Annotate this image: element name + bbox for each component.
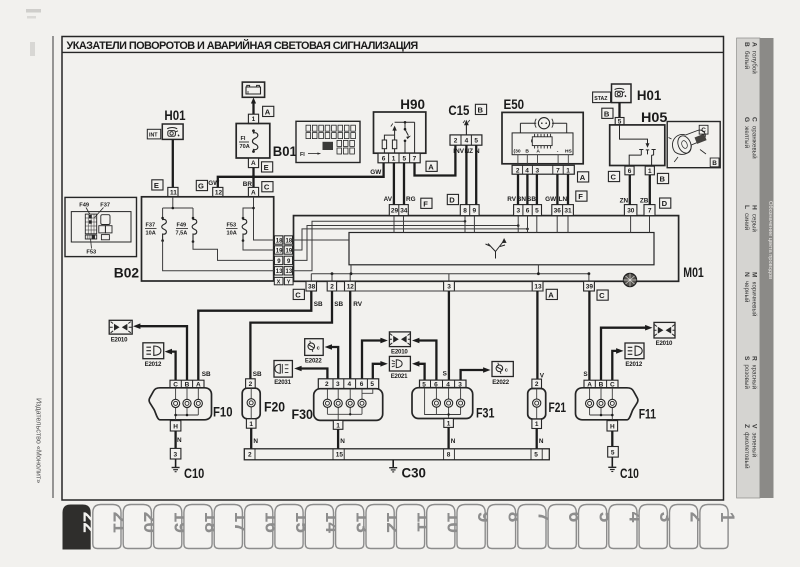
M01 bottom pin 39	[584, 281, 595, 291]
svg-text:C: C	[264, 183, 270, 192]
E2021 icon box	[389, 356, 410, 380]
svg-text:C: C	[599, 291, 605, 300]
svg-text:B02: B02	[114, 265, 140, 281]
node E box	[262, 162, 273, 172]
node F box (left of 29)	[421, 198, 432, 208]
M01 top pin 7	[644, 205, 655, 216]
F21 pin 2 box	[532, 379, 542, 388]
svg-text:A: A	[251, 160, 256, 167]
svg-text:5: 5	[370, 381, 374, 388]
svg-text:c: c	[317, 345, 320, 351]
svg-text:C15: C15	[448, 102, 469, 118]
C15 wire labels INV NZ N	[453, 148, 480, 155]
wire C15 pin4 to M01 8	[465, 145, 467, 204]
wire H90 pin7 to C15 pin2	[415, 145, 456, 175]
E50 inner box	[512, 133, 573, 155]
svg-text:H01: H01	[637, 87, 662, 103]
svg-text:4: 4	[348, 381, 352, 388]
svg-text:D: D	[449, 196, 455, 205]
svg-text:c: c	[505, 367, 508, 373]
svg-text:1: 1	[252, 116, 256, 123]
node B box	[475, 104, 486, 114]
svg-text:E2010: E2010	[656, 340, 673, 347]
thin drops from top pins into inner box	[394, 216, 650, 233]
H90 box	[374, 112, 426, 153]
wire N F21 to C30	[537, 429, 544, 449]
wire F30 pin3 to E2022 arrow	[325, 344, 339, 379]
svg-text:3: 3	[174, 451, 178, 458]
node C box	[262, 182, 273, 192]
wire S pin3 to F31 pin 4	[443, 291, 449, 380]
H05 internals	[620, 125, 656, 166]
cluster B tag	[710, 158, 719, 167]
svg-text:S: S	[583, 371, 588, 378]
E2022 icon box (right)	[492, 362, 513, 387]
svg-text:B: B	[660, 175, 666, 184]
M01 bottom pin 2	[327, 281, 336, 291]
component B02 box	[142, 197, 274, 281]
svg-text:RV: RV	[507, 196, 516, 203]
svg-text:38: 38	[308, 284, 316, 291]
F21 body	[528, 389, 546, 420]
svg-text:H90: H90	[400, 96, 425, 112]
svg-text:INV: INV	[453, 148, 464, 155]
M01 inner relay box	[349, 233, 654, 265]
svg-text:BN: BN	[517, 196, 527, 203]
svg-text:(30: (30	[514, 149, 521, 155]
node C box (right of 39)	[597, 290, 608, 300]
node A box	[426, 161, 437, 171]
svg-text:SB: SB	[253, 371, 262, 378]
svg-text:F30: F30	[292, 406, 314, 422]
E50 IC chip	[531, 134, 552, 149]
wire F37 bottom to row 13	[163, 241, 275, 271]
wire H05 pin1 ZB to M01 7	[640, 175, 650, 205]
F31 pin row 5 6 4 3	[420, 380, 467, 388]
H01 (right) icon box	[612, 84, 632, 103]
svg-text:A голубой: A голубой	[751, 42, 758, 74]
svg-text:SB: SB	[202, 371, 211, 378]
svg-text:2: 2	[516, 167, 520, 174]
M01 bottom pin 38	[306, 281, 317, 291]
svg-text:19: 19	[286, 248, 293, 254]
C10 pin 3 box	[170, 448, 181, 459]
svg-text:2: 2	[330, 284, 334, 291]
svg-text:Y: Y	[287, 280, 291, 286]
svg-text:ZN: ZN	[620, 198, 629, 205]
svg-text:C: C	[295, 290, 301, 299]
wire H90 pin5 RG to M01 34	[404, 163, 416, 205]
svg-text:E2012: E2012	[145, 361, 162, 368]
wire H05 pin6 ZN to M01 30	[620, 175, 630, 205]
svg-text:RG: RG	[406, 196, 416, 203]
svg-text:A: A	[428, 162, 434, 171]
F21 pin 1 box	[532, 419, 542, 428]
F31 body	[412, 388, 473, 419]
wire F49 bottom to row 9	[193, 242, 275, 261]
svg-text:34: 34	[400, 208, 408, 215]
svg-text:N: N	[539, 438, 544, 445]
svg-text:F: F	[578, 192, 583, 201]
pin 11 box	[168, 187, 178, 196]
svg-text:M01: M01	[683, 264, 704, 280]
svg-text:8: 8	[447, 452, 451, 459]
wire E50 pin4 BN to M01 6	[517, 174, 528, 204]
svg-text:3: 3	[447, 284, 451, 291]
svg-text:N: N	[253, 438, 258, 445]
svg-text:1: 1	[447, 420, 451, 427]
svg-text:S: S	[443, 370, 448, 377]
wire F10 pinC to E2012 with arrow	[165, 349, 176, 380]
F20 pin 1 box	[246, 419, 256, 428]
wire F31 pin3 to E2022 arrow	[461, 367, 491, 380]
wire F11 pinB to E2010 arrow	[601, 325, 653, 380]
svg-text:AV: AV	[384, 196, 393, 203]
svg-text:H05: H05	[641, 109, 668, 125]
svg-text:F20: F20	[264, 399, 285, 415]
svg-text:F53: F53	[86, 250, 96, 256]
F30 lamps	[327, 389, 372, 421]
svg-text:E2012: E2012	[625, 361, 642, 368]
wire N F20 to C30	[251, 428, 258, 449]
svg-text:A: A	[536, 149, 540, 155]
wire B01 down BR to B02 pin A	[243, 168, 255, 188]
svg-text:30: 30	[627, 208, 635, 215]
flasher unit icon	[623, 273, 636, 286]
svg-text:2: 2	[325, 381, 329, 388]
wire F30 pin2 to E2031 arrow	[294, 366, 327, 379]
node G box	[196, 180, 207, 190]
svg-text:9: 9	[473, 208, 477, 215]
H90 pin row 6 1 5 7	[378, 153, 420, 163]
svg-text:B: B	[712, 160, 717, 167]
node A box	[263, 106, 274, 116]
svg-text:1: 1	[716, 512, 737, 523]
svg-text:F49: F49	[177, 223, 187, 229]
svg-text:E2010: E2010	[111, 336, 128, 343]
wire/arrow B01 to battery	[251, 98, 256, 116]
H05 pin 5 box	[615, 118, 624, 126]
svg-text:11: 11	[170, 189, 177, 196]
svg-text:1: 1	[392, 156, 396, 163]
STAZ box	[593, 92, 611, 103]
svg-text:4: 4	[525, 167, 529, 174]
ground C10 right	[608, 457, 616, 471]
svg-text:F31: F31	[476, 405, 495, 421]
node C box	[608, 171, 619, 181]
svg-text:B: B	[478, 105, 484, 114]
wire F31 pin5 to E2021 arrow left	[412, 361, 425, 380]
pin 12 box	[213, 187, 223, 196]
svg-text:B01: B01	[273, 143, 297, 159]
connector columns X/Y pin boxes 18 19 9 13	[275, 236, 293, 275]
H05 pin 6 box	[625, 166, 634, 175]
svg-text:V: V	[540, 372, 545, 379]
F10 pin row C B A	[170, 380, 204, 388]
svg-text:5: 5	[534, 452, 538, 459]
connector X Y end boxes	[274, 277, 293, 285]
C10 pin 5 box right	[608, 447, 619, 458]
fuse F49 7,5A	[176, 217, 197, 243]
fuse F37 10A	[145, 217, 166, 242]
E50 buzzer circle	[520, 118, 566, 133]
svg-text:H серый: H серый	[751, 205, 758, 232]
svg-text:5: 5	[403, 156, 407, 163]
wire C15 pin5 to M01 9	[475, 145, 477, 204]
F20 pin 2 box	[246, 379, 256, 388]
svg-text:1: 1	[566, 167, 570, 174]
svg-text:ZB: ZB	[640, 198, 649, 205]
svg-text:C оранжевый: C оранжевый	[751, 117, 758, 159]
F11 pin row A B C	[584, 380, 618, 388]
M01 top pin group 8 9	[460, 205, 479, 216]
svg-text:B белый: B белый	[743, 42, 750, 69]
svg-text:F53: F53	[227, 223, 237, 229]
svg-text:LN: LN	[559, 196, 568, 203]
svg-text:G желтый: G желтый	[743, 117, 750, 148]
internal bus below inner box	[311, 265, 590, 282]
svg-text:N: N	[177, 437, 182, 444]
svg-text:B: B	[525, 149, 529, 155]
svg-text:10A: 10A	[146, 231, 156, 237]
wire E50 pin7 GW to M01 36	[545, 174, 557, 204]
svg-text:V зеленый: V зеленый	[751, 424, 758, 457]
thin wire run from pin 9	[293, 226, 519, 261]
svg-text:S розовый: S розовый	[743, 356, 750, 389]
svg-text:F49: F49	[79, 203, 89, 209]
svg-text:7: 7	[556, 167, 560, 174]
wire SB pin38 to F10 pin A	[198, 291, 323, 380]
F30 pin row 2 3 4 6 5	[318, 379, 378, 389]
svg-text:D: D	[662, 199, 668, 208]
wire N F10 to C10	[176, 431, 182, 448]
M01 bottom pin 13	[532, 281, 543, 291]
H90 internals	[382, 121, 414, 153]
svg-text:70A: 70A	[240, 144, 250, 150]
F31 pin 1 box	[444, 419, 454, 428]
node D box (right of 7)	[660, 198, 671, 208]
svg-text:A: A	[580, 173, 586, 182]
thin rail under bottom pins	[327, 290, 543, 292]
svg-text:H: H	[173, 423, 178, 430]
svg-text:B: B	[604, 109, 610, 118]
pin A box (B02 top)	[248, 187, 258, 196]
svg-text:GW: GW	[208, 180, 220, 187]
svg-text:12: 12	[347, 284, 355, 291]
svg-text:1: 1	[535, 421, 539, 428]
F10 lamps	[174, 388, 198, 421]
svg-text:F37: F37	[146, 223, 156, 229]
B01 pin A box	[248, 158, 258, 167]
svg-text:7: 7	[413, 156, 417, 163]
svg-text:6: 6	[628, 168, 632, 175]
M01 top pin group 29 34	[389, 205, 408, 216]
E50 pin row 2 4 3 7 1	[512, 165, 574, 174]
svg-text:INT: INT	[149, 133, 158, 139]
svg-text:F10: F10	[213, 404, 233, 420]
svg-text:E2010: E2010	[391, 349, 408, 356]
svg-text:4: 4	[465, 138, 469, 145]
svg-text:F21: F21	[549, 399, 567, 415]
svg-text:SB: SB	[334, 301, 343, 308]
C15 pin row 2 4 5	[450, 135, 482, 145]
svg-text:Z фиолетовый: Z фиолетовый	[743, 424, 750, 469]
svg-text:C10: C10	[184, 465, 204, 481]
svg-text:12: 12	[215, 189, 223, 196]
svg-text:E2021: E2021	[391, 373, 408, 380]
node B box	[602, 108, 613, 118]
svg-text:1: 1	[336, 422, 340, 429]
svg-text:6: 6	[382, 156, 386, 163]
E2012 headlight icon box	[143, 343, 164, 368]
svg-text:F: F	[423, 199, 428, 208]
svg-text:18: 18	[286, 238, 293, 244]
node D box (left of 8)	[447, 194, 458, 204]
wire GW bus B02 pin12 to H90 pin6	[208, 163, 383, 188]
svg-text:13: 13	[534, 284, 542, 291]
svg-text:5: 5	[535, 208, 539, 215]
svg-text:1: 1	[648, 168, 652, 175]
svg-text:29: 29	[391, 208, 399, 215]
svg-text:C10: C10	[620, 465, 639, 481]
node C box (left of 38)	[293, 289, 304, 299]
node A box	[578, 172, 589, 182]
F11 pin H box	[607, 421, 618, 431]
svg-text:L синий: L синий	[743, 205, 750, 230]
E2012 icon box (right)	[625, 343, 644, 368]
F30 body	[314, 389, 383, 421]
svg-text:R красный: R красный	[751, 356, 758, 389]
page left rule	[52, 36, 54, 498]
svg-text:E: E	[264, 163, 269, 172]
svg-text:N: N	[340, 438, 345, 445]
wire F53 bottom to row 19	[243, 241, 275, 250]
svg-text:39: 39	[586, 284, 594, 291]
svg-text:C30: C30	[402, 465, 427, 481]
svg-text:A: A	[265, 107, 271, 116]
schematic frame	[62, 37, 724, 501]
wire pin11 tee inside B02	[163, 197, 193, 218]
wire F11 to C10 right	[611, 431, 613, 447]
node A box (right of 13)	[546, 289, 557, 299]
scan smudges	[26, 9, 41, 13]
wire F30 pin6 to E2010 arrow right	[362, 338, 388, 379]
M01 bottom pin 3	[444, 281, 455, 291]
M01 bottom pin 12	[345, 281, 356, 291]
svg-text:1: 1	[249, 421, 253, 428]
E2010 icon box (right)	[654, 322, 676, 347]
svg-text:E2022: E2022	[305, 357, 322, 364]
turn/hazard switch symbol	[486, 239, 506, 258]
svg-text:H: H	[610, 423, 615, 430]
svg-text:C: C	[701, 127, 706, 134]
svg-text:BR: BR	[243, 181, 253, 188]
svg-text:E: E	[154, 181, 159, 190]
svg-text:FI: FI	[241, 136, 246, 142]
M01 top pin 30	[624, 205, 637, 216]
svg-text:3: 3	[336, 381, 340, 388]
wire N F30 to C30	[338, 429, 345, 449]
fuse F53 10A	[226, 217, 247, 242]
svg-text:10A: 10A	[227, 231, 237, 237]
svg-text:E2031: E2031	[274, 379, 291, 386]
F11 lamps	[590, 388, 614, 421]
svg-text:2: 2	[454, 138, 458, 145]
F31 lamps	[425, 388, 461, 419]
svg-text:RV: RV	[353, 301, 362, 308]
svg-text:HS: HS	[565, 149, 573, 155]
svg-text:A: A	[251, 189, 256, 196]
svg-text:18: 18	[276, 238, 283, 244]
component H01 (left) label	[164, 107, 185, 123]
wire N F31 to C30	[449, 427, 456, 448]
E50 box	[502, 112, 583, 163]
E50 internal drops	[518, 155, 568, 166]
H01 icon box	[162, 124, 183, 139]
svg-text:FI: FI	[300, 152, 305, 158]
svg-text:GW: GW	[545, 196, 557, 203]
svg-text:E50: E50	[504, 96, 525, 112]
H05 pin 1 box	[645, 166, 654, 175]
wire H01 to B02 pin 11	[172, 139, 174, 187]
thin wire run from pin 13	[293, 221, 466, 271]
svg-text:13: 13	[276, 269, 283, 275]
svg-text:3: 3	[536, 167, 540, 174]
wire V pin13 to F21 pin 2	[537, 291, 544, 379]
svg-text:Издательство «Монолит»: Издательство «Монолит»	[35, 398, 44, 483]
svg-text:X: X	[277, 280, 281, 286]
wire S pin39 to F11 pin A	[583, 291, 589, 380]
INT box	[147, 129, 160, 139]
E50 internal pin labels	[514, 149, 573, 155]
wire pin A to F53 and row 18	[243, 197, 275, 240]
E2010 indicator icon box	[109, 320, 132, 343]
thin wire run from pin 19	[293, 229, 528, 250]
svg-text:15: 15	[336, 452, 344, 459]
svg-text:5: 5	[611, 449, 615, 456]
svg-text:2: 2	[535, 381, 539, 388]
svg-text:F37: F37	[100, 203, 110, 209]
svg-text:M коричневый: M коричневый	[751, 272, 758, 316]
component M01 box	[294, 216, 679, 282]
svg-text:2: 2	[248, 452, 252, 459]
E2022 icon box (left)	[305, 339, 324, 365]
svg-text:C: C	[611, 173, 617, 182]
node E box	[152, 180, 163, 190]
svg-text:7: 7	[648, 208, 652, 215]
B01 pin 1 box	[248, 114, 258, 123]
C15 key symbol	[463, 120, 470, 135]
svg-text:36: 36	[554, 208, 562, 215]
F11 body	[576, 388, 638, 420]
svg-text:6: 6	[360, 381, 364, 388]
svg-text:SB: SB	[314, 301, 323, 308]
battery icon box	[242, 82, 264, 97]
wire SB pin2 to F20 pin 2	[250, 291, 343, 379]
ground C10 left	[172, 459, 180, 472]
svg-text:3: 3	[517, 208, 521, 215]
wire H01 to H05 pin5	[618, 103, 620, 118]
F10 pin H box	[170, 421, 181, 431]
wire E50 pin2 RV to M01 3	[507, 174, 518, 204]
wire F30 pin5 to E2021 arrow right	[373, 361, 388, 379]
svg-text:STAZ: STAZ	[594, 96, 608, 102]
svg-text:13: 13	[286, 269, 293, 275]
svg-text:A: A	[548, 290, 554, 299]
svg-text:УКАЗАТЕЛИ ПОВОРОТОВ И АВАРИЙНА: УКАЗАТЕЛИ ПОВОРОТОВ И АВАРИЙНАЯ СВЕТОВАЯ…	[67, 39, 419, 52]
svg-text:N: N	[451, 438, 456, 445]
svg-text:6: 6	[526, 208, 530, 215]
